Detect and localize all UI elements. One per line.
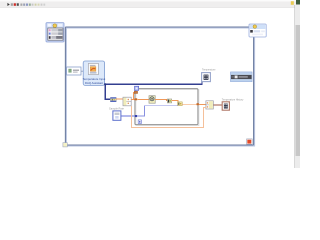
wire constant to express VI xyxy=(81,70,83,72)
wire node C to exit tunnel xyxy=(182,103,196,105)
wire mean VI to scale node xyxy=(155,99,167,101)
tunnel node A output xyxy=(134,98,137,100)
wire tunnel to mean VI xyxy=(137,98,149,100)
cluster constant icon top-left xyxy=(46,23,64,42)
toolbar background xyxy=(0,0,300,8)
while loop corner box bottom-left xyxy=(63,143,67,147)
while loop condition terminal xyxy=(247,139,253,144)
toolbar help icon xyxy=(291,1,294,5)
toolbar run button xyxy=(7,3,9,6)
integer wire control to tunnel xyxy=(121,115,135,117)
device name constant on loop border xyxy=(67,67,81,75)
toolbar step over xyxy=(43,4,45,6)
temperature history chart terminal xyxy=(222,99,244,111)
tunnel on inner loop left edge xyxy=(135,115,137,117)
wire tunnel to bundle xyxy=(199,103,206,105)
page background xyxy=(0,0,300,168)
toolbar highlight execution bulb xyxy=(38,4,40,6)
toolbar align objects xyxy=(23,4,25,6)
unbundle node A xyxy=(123,97,131,106)
svg-text:Sample Rate: Sample Rate xyxy=(109,107,125,111)
mean VI xyxy=(149,96,155,104)
while loop border xyxy=(65,27,254,146)
wire node A outputs to tunnels xyxy=(131,98,134,100)
multiply node C xyxy=(178,102,183,106)
toolbar pause button xyxy=(17,3,19,6)
toolbar reorder xyxy=(32,4,34,6)
shift register tunnel left xyxy=(134,91,137,93)
wire node B to node C xyxy=(172,100,178,102)
for loop i terminal xyxy=(138,120,141,124)
wire junction xyxy=(104,83,106,85)
scale node B xyxy=(167,99,171,103)
toolbar resize objects xyxy=(29,4,31,6)
wire branch up to shift register xyxy=(133,92,134,99)
toolbar distribute objects xyxy=(26,4,28,6)
toolbar corner logo xyxy=(296,0,300,5)
bundle node xyxy=(206,101,213,109)
inner for loop border xyxy=(135,89,199,126)
exit tunnel right xyxy=(197,103,199,105)
toolbar clean diagram xyxy=(35,4,37,6)
samples control terminal xyxy=(109,107,125,121)
cluster wire bundle to history chart xyxy=(213,104,222,106)
convert from dynamic data node xyxy=(110,97,116,102)
dynamic data wire branch down xyxy=(105,84,110,99)
dynamic data wire to chart xyxy=(105,83,203,85)
toolbar abort button xyxy=(14,3,16,6)
number of samples icon top-right xyxy=(249,24,266,37)
temperature chart terminal xyxy=(202,69,216,82)
scrollbar strip right xyxy=(294,5,300,168)
feedback wire xyxy=(131,106,206,128)
wire kink dot xyxy=(166,100,167,101)
toolbar retain wire values xyxy=(41,4,43,6)
DAQ Assistant express VI xyxy=(83,61,106,85)
svg-text:Temperature: Temperature xyxy=(202,69,216,72)
wire convert to unbundle xyxy=(116,98,123,100)
integer wire inside loop xyxy=(137,106,178,116)
svg-text:DAQ Assistant: DAQ Assistant xyxy=(85,81,103,85)
toolbar font selector xyxy=(20,4,22,6)
for loop N terminal xyxy=(135,86,139,90)
wire stub into chart terminal xyxy=(201,82,203,85)
stop button terminal selected xyxy=(231,72,252,82)
toolbar run-continuous button xyxy=(11,3,13,6)
